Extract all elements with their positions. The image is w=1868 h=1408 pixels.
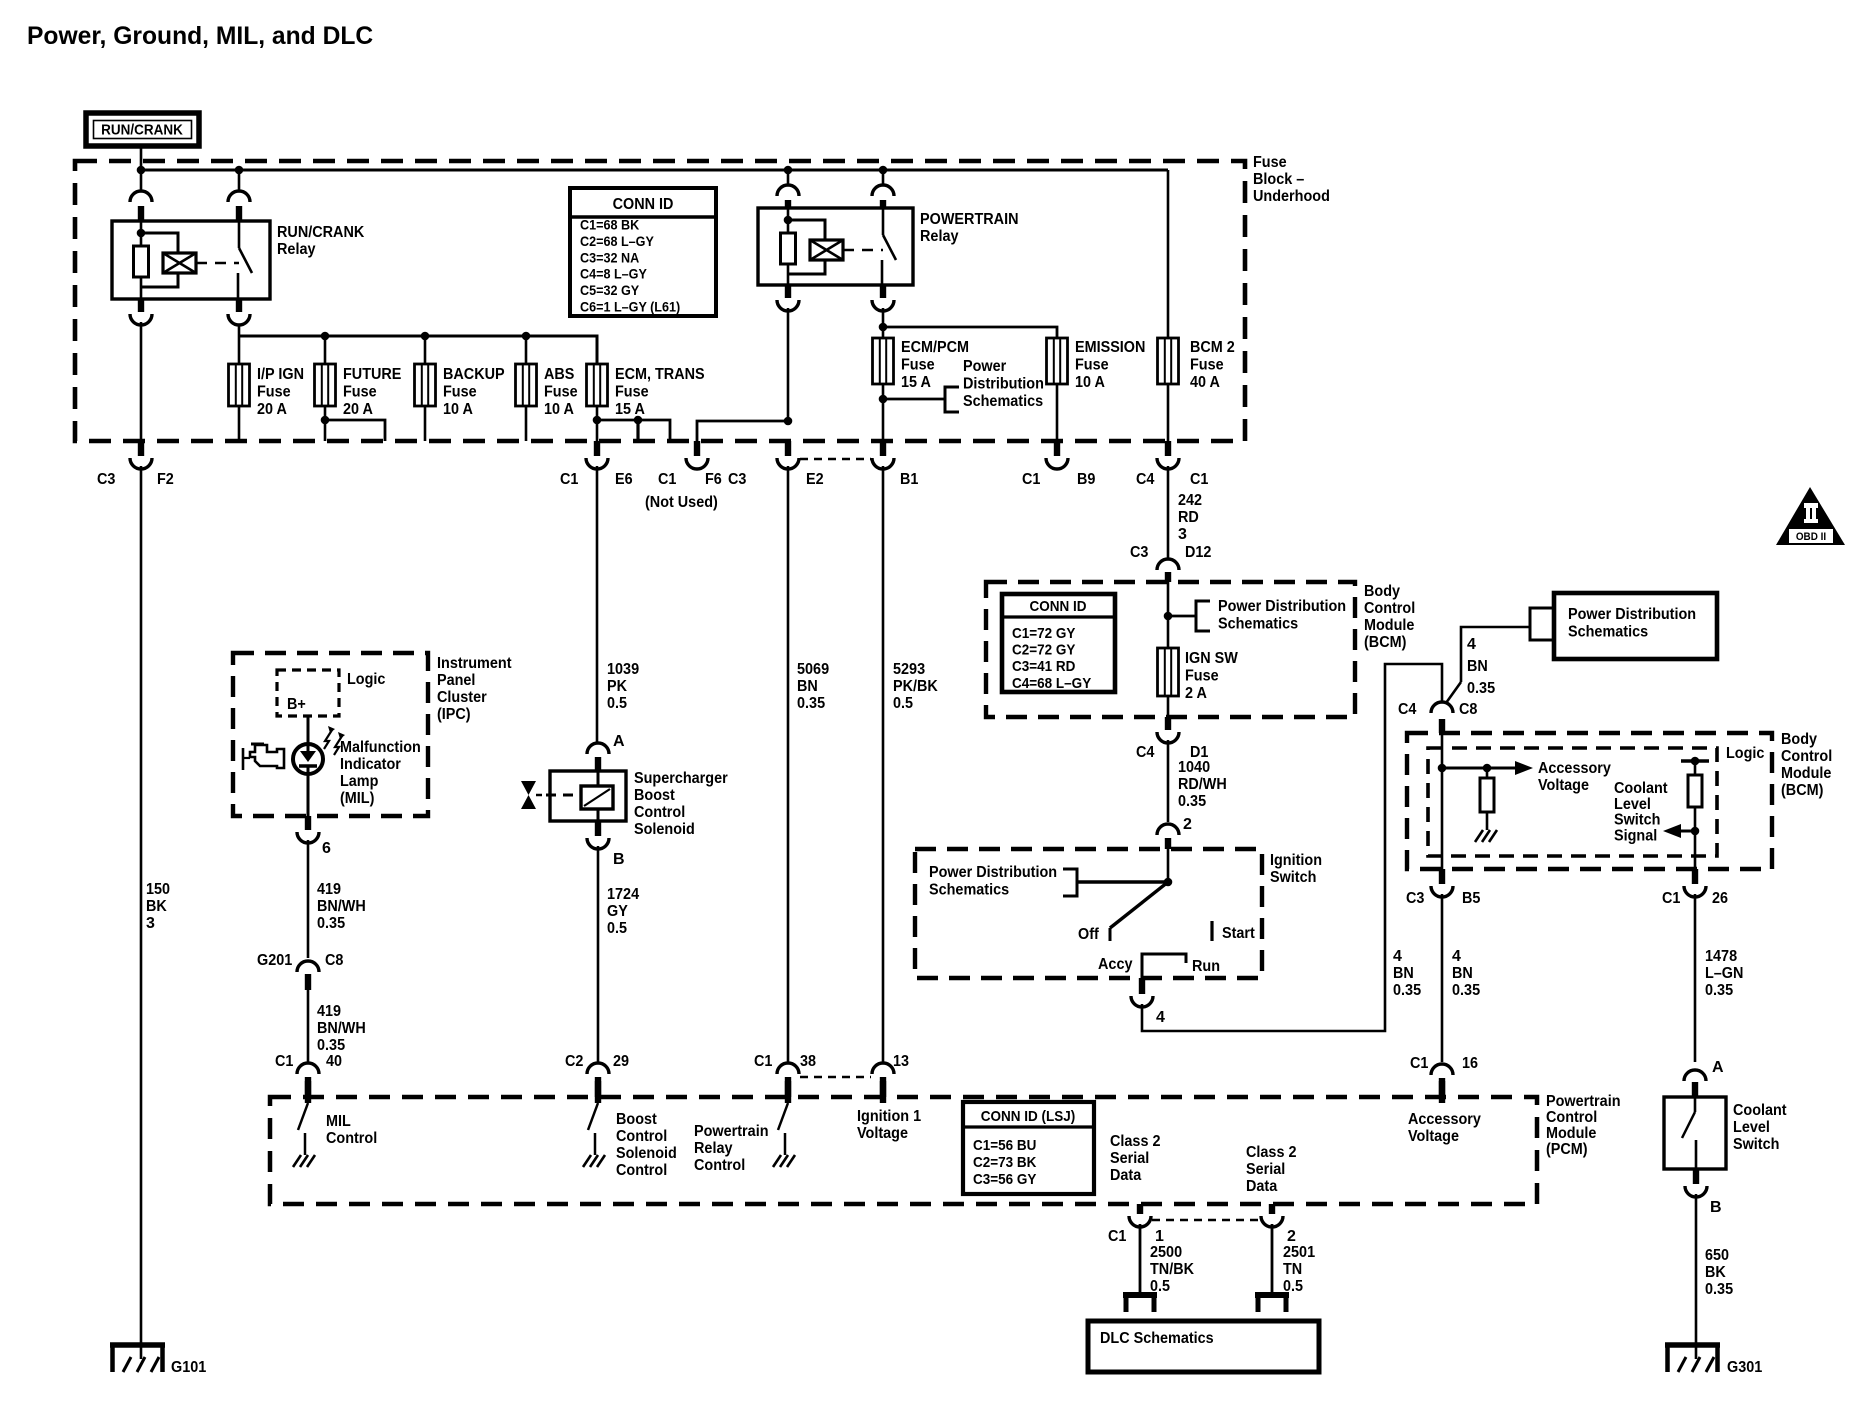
svg-text:Fuse: Fuse <box>1253 154 1287 171</box>
svg-text:Fuse: Fuse <box>257 384 291 401</box>
svg-text:CONN ID: CONN ID <box>1030 598 1087 615</box>
svg-text:E2: E2 <box>806 471 824 488</box>
svg-text:C2: C2 <box>565 1053 583 1070</box>
svg-text:Module: Module <box>1364 617 1414 634</box>
svg-text:Serial: Serial <box>1110 1150 1149 1167</box>
svg-text:15 A: 15 A <box>615 401 645 418</box>
svg-text:D12: D12 <box>1185 544 1211 561</box>
svg-text:150: 150 <box>146 881 170 898</box>
svg-text:0.35: 0.35 <box>1452 982 1480 999</box>
svg-text:Instrument: Instrument <box>437 655 512 672</box>
svg-text:C1=68 BK: C1=68 BK <box>580 217 639 233</box>
svg-text:Accessory: Accessory <box>1538 760 1611 777</box>
svg-text:PK/BK: PK/BK <box>893 678 938 695</box>
svg-text:C4: C4 <box>1136 471 1154 488</box>
svg-text:(BCM): (BCM) <box>1364 634 1406 651</box>
svg-text:15 A: 15 A <box>901 374 931 391</box>
svg-text:3: 3 <box>1178 526 1187 543</box>
svg-text:(Not Used): (Not Used) <box>645 494 718 511</box>
svg-text:Panel: Panel <box>437 672 475 689</box>
svg-text:4: 4 <box>1393 948 1402 965</box>
svg-text:242: 242 <box>1178 492 1202 509</box>
svg-text:C1: C1 <box>275 1053 293 1070</box>
svg-text:B5: B5 <box>1462 890 1480 907</box>
svg-text:0.35: 0.35 <box>797 695 825 712</box>
svg-text:1478: 1478 <box>1705 948 1737 965</box>
svg-text:C2=73 BK: C2=73 BK <box>973 1154 1037 1171</box>
svg-text:0.35: 0.35 <box>317 915 345 932</box>
svg-text:Control: Control <box>326 1130 377 1147</box>
svg-text:4: 4 <box>1156 1009 1165 1026</box>
svg-text:Start: Start <box>1222 925 1255 942</box>
svg-text:2500: 2500 <box>1150 1244 1182 1261</box>
svg-text:C4: C4 <box>1398 701 1416 718</box>
svg-text:G101: G101 <box>171 1359 206 1376</box>
svg-text:Power, Ground, MIL, and DLC: Power, Ground, MIL, and DLC <box>27 22 373 50</box>
svg-text:Body: Body <box>1364 583 1400 600</box>
svg-text:Level: Level <box>1733 1119 1770 1136</box>
svg-text:IGN SW: IGN SW <box>1185 650 1239 667</box>
svg-text:(PCM): (PCM) <box>1546 1141 1588 1158</box>
svg-text:Data: Data <box>1110 1167 1141 1184</box>
svg-text:FUTURE: FUTURE <box>343 366 402 383</box>
svg-text:Switch: Switch <box>1733 1136 1779 1153</box>
svg-text:4: 4 <box>1467 636 1476 653</box>
svg-text:BN: BN <box>1467 658 1488 675</box>
svg-text:0.35: 0.35 <box>1178 793 1206 810</box>
svg-text:Ignition: Ignition <box>1270 852 1322 869</box>
svg-text:Coolant: Coolant <box>1614 780 1668 797</box>
svg-text:C3: C3 <box>1406 890 1424 907</box>
svg-text:C2=72 GY: C2=72 GY <box>1012 642 1075 659</box>
svg-text:Fuse: Fuse <box>901 357 935 374</box>
svg-text:F2: F2 <box>157 471 174 488</box>
svg-text:C1=56 BU: C1=56 BU <box>973 1137 1036 1154</box>
svg-text:Powertrain: Powertrain <box>694 1123 769 1140</box>
svg-text:Accy: Accy <box>1098 956 1133 973</box>
svg-text:Distribution: Distribution <box>963 376 1044 393</box>
svg-text:F6: F6 <box>705 471 722 488</box>
svg-text:20 A: 20 A <box>343 401 373 418</box>
svg-text:Powertrain: Powertrain <box>1546 1093 1621 1110</box>
svg-text:Switch: Switch <box>1614 812 1660 829</box>
svg-text:Relay: Relay <box>277 241 316 258</box>
svg-text:Schematics: Schematics <box>963 393 1043 410</box>
svg-text:Power Distribution: Power Distribution <box>1218 598 1346 615</box>
svg-text:0.35: 0.35 <box>317 1037 345 1054</box>
svg-text:Cluster: Cluster <box>437 689 487 706</box>
svg-text:RUN/CRANK: RUN/CRANK <box>101 122 183 139</box>
svg-text:10 A: 10 A <box>443 401 473 418</box>
svg-text:A: A <box>1712 1059 1724 1076</box>
svg-text:BN: BN <box>1393 965 1414 982</box>
svg-text:Schematics: Schematics <box>929 882 1009 899</box>
svg-text:B1: B1 <box>900 471 918 488</box>
svg-text:RUN/CRANK: RUN/CRANK <box>277 224 365 241</box>
svg-text:Power Distribution: Power Distribution <box>1568 606 1696 623</box>
svg-text:1724: 1724 <box>607 886 639 903</box>
svg-text:419: 419 <box>317 881 341 898</box>
svg-text:GY: GY <box>607 903 628 920</box>
svg-text:A: A <box>613 733 625 750</box>
svg-text:0.5: 0.5 <box>607 920 627 937</box>
svg-text:C6=1 L–GY (L61): C6=1 L–GY (L61) <box>580 299 680 315</box>
svg-text:Logic: Logic <box>1726 745 1764 762</box>
svg-text:2501: 2501 <box>1283 1244 1315 1261</box>
svg-text:(IPC): (IPC) <box>437 706 471 723</box>
svg-text:(BCM): (BCM) <box>1781 782 1823 799</box>
svg-text:Control: Control <box>694 1157 745 1174</box>
svg-text:C1: C1 <box>1022 471 1040 488</box>
svg-text:2: 2 <box>1287 1228 1296 1245</box>
svg-text:0.35: 0.35 <box>1705 1281 1733 1298</box>
svg-text:CONN ID: CONN ID <box>613 196 674 213</box>
svg-text:Off: Off <box>1078 926 1099 943</box>
svg-text:DLC Schematics: DLC Schematics <box>1100 1330 1214 1347</box>
svg-text:Body: Body <box>1781 731 1817 748</box>
svg-text:BN: BN <box>797 678 818 695</box>
svg-text:C1: C1 <box>754 1053 772 1070</box>
svg-text:1039: 1039 <box>607 661 639 678</box>
svg-text:C8: C8 <box>325 952 343 969</box>
svg-text:3: 3 <box>146 915 155 932</box>
svg-text:C2=68 L–GY: C2=68 L–GY <box>580 233 654 249</box>
svg-text:2 A: 2 A <box>1185 685 1207 702</box>
svg-text:TN/BK: TN/BK <box>1150 1261 1194 1278</box>
svg-text:MIL: MIL <box>326 1113 351 1130</box>
svg-text:BK: BK <box>1705 1264 1726 1281</box>
svg-text:16: 16 <box>1462 1055 1478 1072</box>
svg-text:BN/WH: BN/WH <box>317 1020 366 1037</box>
svg-text:C4=68 L–GY: C4=68 L–GY <box>1012 675 1091 692</box>
svg-text:BACKUP: BACKUP <box>443 366 505 383</box>
svg-text:ECM/PCM: ECM/PCM <box>901 339 969 356</box>
svg-text:10 A: 10 A <box>544 401 574 418</box>
svg-text:C1: C1 <box>560 471 578 488</box>
svg-text:BK: BK <box>146 898 167 915</box>
svg-text:Voltage: Voltage <box>1408 1128 1459 1145</box>
svg-text:OBD II: OBD II <box>1796 531 1826 543</box>
svg-text:Serial: Serial <box>1246 1161 1285 1178</box>
svg-text:Class 2: Class 2 <box>1110 1133 1161 1150</box>
svg-text:Boost: Boost <box>616 1111 657 1128</box>
svg-text:0.5: 0.5 <box>893 695 913 712</box>
svg-text:Solenoid: Solenoid <box>616 1145 677 1162</box>
svg-text:Control: Control <box>1546 1109 1597 1126</box>
svg-text:Relay: Relay <box>694 1140 733 1157</box>
svg-text:I/P IGN: I/P IGN <box>257 366 304 383</box>
svg-text:C1: C1 <box>1662 890 1680 907</box>
svg-text:Run: Run <box>1192 958 1220 975</box>
svg-text:Block –: Block – <box>1253 171 1304 188</box>
svg-text:C3: C3 <box>728 471 746 488</box>
svg-text:Control: Control <box>634 804 685 821</box>
svg-text:BN/WH: BN/WH <box>317 898 366 915</box>
svg-text:Control: Control <box>1781 748 1832 765</box>
svg-text:ABS: ABS <box>544 366 575 383</box>
svg-text:Schematics: Schematics <box>1568 624 1648 641</box>
svg-text:Schematics: Schematics <box>1218 616 1298 633</box>
svg-text:Module: Module <box>1781 765 1831 782</box>
svg-text:38: 38 <box>800 1053 816 1070</box>
svg-text:RD/WH: RD/WH <box>1178 776 1227 793</box>
svg-text:EMISSION: EMISSION <box>1075 339 1145 356</box>
svg-text:PK: PK <box>607 678 627 695</box>
svg-text:Voltage: Voltage <box>857 1125 908 1142</box>
svg-text:1040: 1040 <box>1178 759 1210 776</box>
svg-text:Boost: Boost <box>634 787 675 804</box>
svg-text:Coolant: Coolant <box>1733 1102 1787 1119</box>
svg-text:C1=72 GY: C1=72 GY <box>1012 625 1075 642</box>
svg-text:Module: Module <box>1546 1125 1596 1142</box>
svg-text:0.35: 0.35 <box>1467 680 1495 697</box>
svg-text:10 A: 10 A <box>1075 374 1105 391</box>
svg-text:C3=41 RD: C3=41 RD <box>1012 658 1076 675</box>
svg-text:C3: C3 <box>97 471 115 488</box>
svg-text:Control: Control <box>616 1162 667 1179</box>
svg-text:B9: B9 <box>1077 471 1095 488</box>
svg-text:Relay: Relay <box>920 228 959 245</box>
svg-text:E6: E6 <box>615 471 633 488</box>
svg-text:29: 29 <box>613 1053 629 1070</box>
svg-text:6: 6 <box>322 840 331 857</box>
svg-text:Power: Power <box>963 358 1006 375</box>
svg-text:C3=56 GY: C3=56 GY <box>973 1171 1036 1188</box>
svg-text:C3: C3 <box>1130 544 1148 561</box>
svg-text:Data: Data <box>1246 1178 1277 1195</box>
svg-text:Class 2: Class 2 <box>1246 1144 1297 1161</box>
svg-text:C1: C1 <box>1190 471 1208 488</box>
svg-text:0.5: 0.5 <box>607 695 627 712</box>
svg-text:G201: G201 <box>257 952 292 969</box>
svg-text:650: 650 <box>1705 1247 1729 1264</box>
svg-text:Control: Control <box>1364 600 1415 617</box>
svg-text:Fuse: Fuse <box>1185 668 1219 685</box>
svg-text:L–GN: L–GN <box>1705 965 1743 982</box>
svg-text:B: B <box>1710 1199 1722 1216</box>
svg-text:13: 13 <box>893 1053 909 1070</box>
svg-text:Fuse: Fuse <box>615 384 649 401</box>
svg-text:B+: B+ <box>287 696 306 713</box>
svg-text:Fuse: Fuse <box>1190 357 1224 374</box>
svg-text:Solenoid: Solenoid <box>634 821 695 838</box>
svg-text:POWERTRAIN: POWERTRAIN <box>920 211 1019 228</box>
svg-text:Fuse: Fuse <box>1075 357 1109 374</box>
svg-text:BCM 2: BCM 2 <box>1190 339 1235 356</box>
svg-text:C5=32 GY: C5=32 GY <box>580 282 640 298</box>
svg-text:C1: C1 <box>658 471 676 488</box>
svg-text:26: 26 <box>1712 890 1728 907</box>
svg-text:Lamp: Lamp <box>340 773 379 790</box>
svg-text:C4=8 L–GY: C4=8 L–GY <box>580 266 647 282</box>
svg-text:Fuse: Fuse <box>343 384 377 401</box>
svg-text:Underhood: Underhood <box>1253 188 1330 205</box>
svg-text:Logic: Logic <box>347 671 385 688</box>
svg-text:Power Distribution: Power Distribution <box>929 864 1057 881</box>
svg-text:G301: G301 <box>1727 1359 1762 1376</box>
svg-text:0.35: 0.35 <box>1393 982 1421 999</box>
svg-text:C8: C8 <box>1459 701 1477 718</box>
svg-text:5069: 5069 <box>797 661 829 678</box>
svg-text:5293: 5293 <box>893 661 925 678</box>
svg-text:ECM, TRANS: ECM, TRANS <box>615 366 705 383</box>
svg-text:Switch: Switch <box>1270 869 1316 886</box>
svg-text:Accessory: Accessory <box>1408 1111 1481 1128</box>
svg-text:Malfunction: Malfunction <box>340 739 421 756</box>
svg-text:40 A: 40 A <box>1190 374 1220 391</box>
svg-text:0.35: 0.35 <box>1705 982 1733 999</box>
svg-text:(MIL): (MIL) <box>340 790 374 807</box>
svg-text:Ignition 1: Ignition 1 <box>857 1108 921 1125</box>
svg-text:Indicator: Indicator <box>340 756 401 773</box>
svg-text:BN: BN <box>1452 965 1473 982</box>
svg-text:Supercharger: Supercharger <box>634 770 728 787</box>
svg-text:RD: RD <box>1178 509 1199 526</box>
svg-text:20 A: 20 A <box>257 401 287 418</box>
svg-text:Control: Control <box>616 1128 667 1145</box>
svg-text:4: 4 <box>1452 948 1461 965</box>
svg-text:TN: TN <box>1283 1261 1302 1278</box>
svg-text:C1: C1 <box>1410 1055 1428 1072</box>
svg-text:C1: C1 <box>1108 1228 1126 1245</box>
svg-text:Voltage: Voltage <box>1538 777 1589 794</box>
svg-text:2: 2 <box>1183 816 1192 833</box>
svg-text:40: 40 <box>326 1053 342 1070</box>
svg-text:Level: Level <box>1614 796 1651 813</box>
svg-text:C4: C4 <box>1136 744 1154 761</box>
svg-text:B: B <box>613 851 625 868</box>
svg-text:CONN ID (LSJ): CONN ID (LSJ) <box>981 1108 1076 1125</box>
svg-text:Fuse: Fuse <box>544 384 578 401</box>
svg-text:Signal: Signal <box>1614 827 1657 844</box>
svg-text:419: 419 <box>317 1003 341 1020</box>
svg-text:1: 1 <box>1155 1228 1164 1245</box>
svg-text:C3=32 NA: C3=32 NA <box>580 249 639 265</box>
svg-text:Fuse: Fuse <box>443 384 477 401</box>
